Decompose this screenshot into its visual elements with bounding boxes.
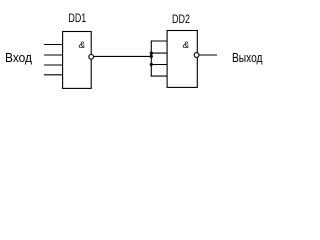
svg-text:&: & bbox=[79, 40, 85, 51]
svg-text:Выход: Выход bbox=[232, 50, 263, 65]
wire DD2 input pin 1 bbox=[151, 40, 167, 42]
wire DD2 output bbox=[199, 54, 217, 56]
wire DD1 input pin 2 bbox=[44, 54, 63, 56]
svg-text:Вход: Вход bbox=[5, 50, 32, 65]
wire DD1 input pin 1 bbox=[44, 44, 63, 46]
NAND gate DD1 body bbox=[63, 32, 92, 89]
svg-text:DD2: DD2 bbox=[172, 12, 190, 26]
wire DD1 input pin 3 bbox=[44, 64, 63, 66]
junction dot at bus / pin 2 bbox=[150, 52, 153, 55]
inversion bubble on DD2 output bbox=[194, 53, 199, 58]
wire DD1 output to DD2 input bus bbox=[94, 55, 152, 57]
wire DD2 input pin 3 bbox=[151, 64, 167, 66]
wire DD2 input bus (vertical) bbox=[150, 41, 152, 77]
junction dot at bus / pin 3 bbox=[150, 63, 153, 66]
NAND gate DD2 body bbox=[167, 31, 197, 88]
junction dot at bus / incoming wire bbox=[150, 55, 153, 58]
svg-text:&: & bbox=[183, 40, 189, 51]
wire DD2 input pin 4 bbox=[151, 75, 167, 77]
wire DD1 input pin 4 bbox=[44, 74, 63, 76]
wire DD2 input pin 2 bbox=[151, 52, 167, 54]
svg-text:DD1: DD1 bbox=[68, 11, 86, 25]
inversion bubble on DD1 output bbox=[89, 54, 94, 59]
